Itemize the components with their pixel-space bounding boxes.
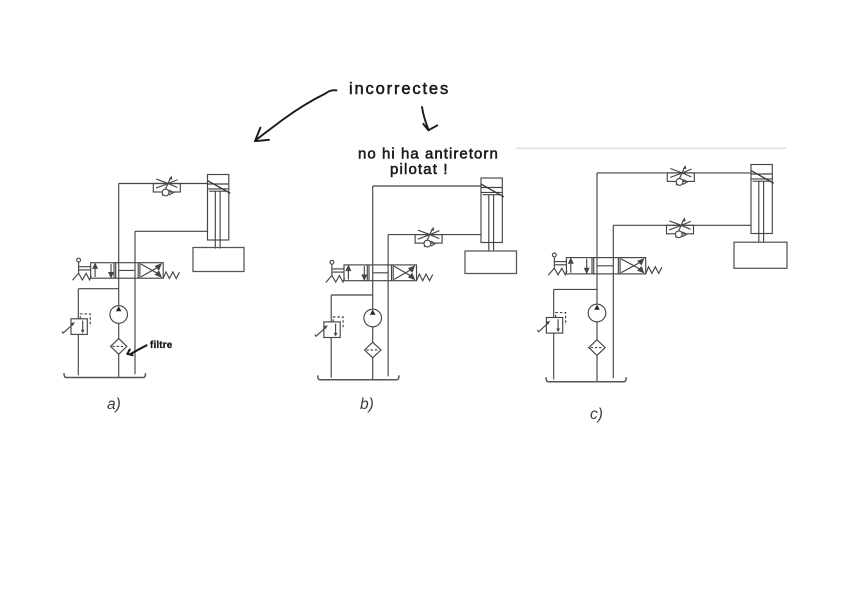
wire: filter to tank c bbox=[596, 355, 598, 381]
directional control valve a body bbox=[91, 263, 164, 279]
valve a left spring / fulcrum bbox=[73, 273, 92, 280]
tank / reservoir b bbox=[318, 375, 399, 379]
wire: top line to cylinder cap a bbox=[119, 183, 208, 185]
valve a right box: crossed arrows bbox=[141, 264, 161, 277]
svg-text:pilotat !: pilotat ! bbox=[390, 161, 449, 178]
cylinder b body bbox=[481, 178, 502, 243]
tank / reservoir c bbox=[546, 377, 626, 381]
wire: filter to tank b bbox=[372, 358, 374, 380]
relief valve b pilot line (dashed) bbox=[333, 317, 343, 329]
valve a right spring bbox=[163, 272, 179, 279]
directional control valve b body bbox=[344, 265, 417, 281]
valve c right box: crossed arrows bbox=[621, 259, 643, 273]
wire: top line to cylinder cap c bbox=[597, 172, 751, 174]
load / mass on cylinder b bbox=[465, 251, 517, 274]
relief valve a pilot line (dashed) bbox=[80, 314, 90, 326]
pressure relief valve c bbox=[537, 318, 562, 334]
valve b left box: parallel arrows bbox=[346, 266, 366, 280]
cylinder b piston bbox=[481, 188, 502, 195]
flow-control valve b-mid (throttle with check) bbox=[415, 227, 442, 247]
valve a left box: parallel arrows bbox=[93, 264, 113, 278]
cylinder a body bbox=[208, 175, 229, 241]
hand-drawn curved arrow to circuit a bbox=[255, 90, 337, 141]
cylinder b hand slash mark bbox=[481, 184, 504, 197]
svg-text:b): b) bbox=[360, 396, 374, 413]
hand-drawn arrow to filter bbox=[127, 345, 146, 355]
valve b centre box: connecting line bbox=[373, 272, 388, 274]
flow-control valve c-mid (throttle with check) bbox=[667, 217, 694, 237]
flow-control valve a-top (throttle with check) bbox=[153, 176, 180, 196]
valve b manual lever bbox=[330, 260, 344, 275]
tank / reservoir a bbox=[64, 373, 146, 377]
valve c left box: parallel arrows bbox=[569, 259, 589, 273]
pump b bbox=[364, 309, 382, 327]
pump a bbox=[110, 306, 128, 324]
wire: P riser c bbox=[596, 173, 598, 304]
wire: relief inlet c bbox=[553, 289, 555, 317]
valve b left spring / fulcrum bbox=[326, 276, 345, 283]
wire: relief inlet a bbox=[77, 289, 79, 319]
wire: relief branch b bbox=[331, 294, 373, 296]
cylinder c piston rod bbox=[759, 181, 764, 242]
svg-text:c): c) bbox=[590, 406, 603, 423]
wire: pump suction a bbox=[118, 323, 120, 338]
wire: relief branch c bbox=[554, 288, 597, 290]
svg-text:incorrectes: incorrectes bbox=[349, 80, 450, 98]
cylinder c hand slash mark bbox=[751, 171, 774, 184]
cylinder c piston bbox=[751, 174, 772, 181]
wire: T return riser a bbox=[134, 231, 136, 374]
valve c right spring bbox=[646, 267, 662, 274]
wire: T return riser b bbox=[387, 235, 389, 377]
wire: T return riser c bbox=[612, 225, 614, 378]
filter b bbox=[365, 342, 381, 358]
valve b right box: crossed arrows bbox=[394, 266, 414, 279]
hand-drawn small arrow to note bbox=[422, 107, 437, 130]
valve b right spring bbox=[417, 274, 433, 281]
wire: pump suction c bbox=[596, 322, 598, 340]
faint scan line artefact bbox=[516, 147, 787, 149]
cylinder b piston rod bbox=[489, 195, 494, 251]
wire: filter to tank a bbox=[118, 354, 120, 377]
svg-text:no hi ha antiretorn: no hi ha antiretorn bbox=[358, 146, 499, 163]
wire: P riser a bbox=[118, 184, 120, 306]
wire: relief to tank c bbox=[553, 333, 555, 379]
filter a bbox=[111, 339, 127, 355]
pump c bbox=[588, 304, 606, 322]
wire: relief to tank b bbox=[330, 338, 332, 378]
svg-text:filtre: filtre bbox=[150, 340, 173, 351]
valve a manual lever bbox=[77, 258, 91, 273]
wire: P riser b bbox=[372, 186, 374, 309]
cylinder a piston bbox=[208, 184, 229, 191]
valve c centre box: connecting line bbox=[597, 265, 613, 267]
load / mass on cylinder c bbox=[734, 242, 787, 268]
wire: mid line to cylinder rod side c bbox=[613, 224, 751, 226]
svg-text:a): a) bbox=[107, 396, 121, 413]
valve a centre box: connecting line bbox=[119, 269, 135, 271]
relief valve c pilot line (dashed) bbox=[556, 313, 566, 325]
filter c bbox=[589, 340, 605, 356]
pressure relief valve a bbox=[62, 319, 87, 335]
wire: relief branch a bbox=[78, 288, 118, 290]
cylinder a piston rod bbox=[215, 191, 220, 248]
valve c manual lever bbox=[552, 253, 566, 268]
pressure relief valve b bbox=[315, 322, 340, 338]
wire: mid line to cylinder rod side b bbox=[388, 234, 481, 236]
wire: mid line to cylinder rod side a bbox=[135, 230, 208, 232]
wire: pump suction b bbox=[372, 327, 374, 342]
wire: top line to cylinder cap b bbox=[373, 185, 481, 187]
directional control valve c body bbox=[566, 258, 645, 274]
wire: relief inlet b bbox=[330, 295, 332, 322]
cylinder c body bbox=[751, 165, 772, 234]
valve c left spring / fulcrum bbox=[548, 268, 567, 275]
wire: relief to tank a bbox=[77, 334, 79, 375]
flow-control valve c-top (throttle with check) bbox=[667, 165, 694, 185]
load / mass on cylinder a bbox=[193, 248, 244, 272]
cylinder a hand slash mark bbox=[208, 181, 231, 194]
